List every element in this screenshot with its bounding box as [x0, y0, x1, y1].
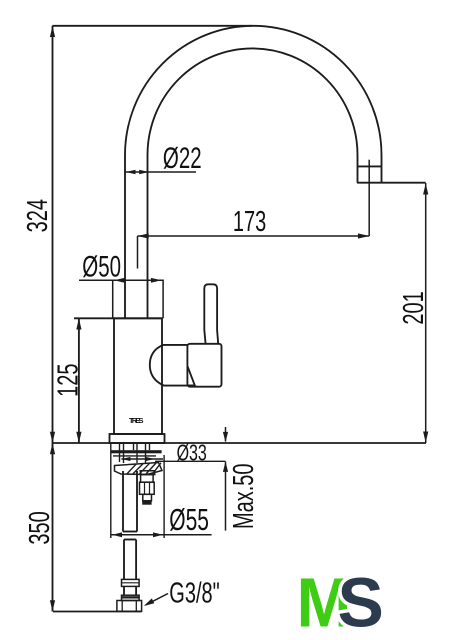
base flange [110, 434, 165, 443]
173 dimension line [138, 235, 370, 237]
valve cylinder [141, 475, 154, 483]
mounting studs [119, 443, 121, 462]
arrow 173 left [138, 233, 149, 238]
Ø55 left extension [110, 444, 112, 539]
svg-text:201: 201 [397, 291, 430, 324]
supply pipe upper [122, 471, 124, 532]
spout bottom line [357, 182, 426, 184]
svg-text:S: S [338, 563, 384, 640]
top reference line [53, 25, 253, 27]
handle lever [204, 284, 218, 344]
valve nut [140, 482, 155, 494]
dimension texts [21, 142, 429, 609]
svg-text:324: 324 [21, 199, 54, 232]
svg-text:125: 125 [52, 364, 85, 397]
svg-text:Max.50: Max.50 [227, 463, 260, 529]
Ø55 right extension [163, 455, 165, 538]
Ø33 leader line [121, 458, 163, 460]
svg-text:Ø55: Ø55 [169, 502, 209, 537]
Ø50 dimension line [79, 279, 164, 281]
valve lower [143, 494, 152, 501]
outer spout arc [125, 26, 382, 183]
aerator joint line [358, 165, 382, 167]
arrow Ø55 right [153, 532, 163, 537]
svg-text:Ø50: Ø50 [82, 251, 121, 284]
riser tube right edge [147, 155, 149, 318]
svg-text:Ø33: Ø33 [177, 441, 207, 467]
Max.50 dimension line [225, 462, 227, 531]
arrow Ø55 left [112, 532, 122, 537]
MS logo [297, 563, 384, 640]
arrow Ø50 left [114, 278, 125, 283]
svg-text:350: 350 [23, 511, 56, 544]
arrow 324 top [50, 26, 55, 37]
body top line [74, 317, 162, 319]
arrow Max50 down [223, 432, 228, 442]
svg-text:G3/8": G3/8" [169, 577, 219, 610]
arrow 125 top [76, 318, 81, 329]
arrow 201 top [423, 183, 428, 194]
Max.50 upper pointer [225, 427, 227, 442]
201 dimension line [425, 183, 427, 443]
washer line [113, 455, 156, 457]
valve neck [140, 471, 155, 475]
arrow Max50 up [223, 462, 228, 472]
arrowheads [50, 26, 428, 612]
125 dimension line [78, 318, 80, 443]
324/350 dimension line [52, 26, 54, 612]
gasket bar [112, 450, 162, 453]
173 extension tick [137, 236, 139, 269]
arrow Ø33 left [121, 457, 130, 461]
handle dome [150, 345, 188, 386]
hose collar B [122, 595, 140, 600]
arrow Ø50 right [151, 278, 162, 283]
deck line [52, 442, 426, 444]
Ø50 right extension [162, 280, 164, 318]
handle body [187, 344, 221, 387]
hose mid section [123, 586, 125, 595]
bracket hatch [127, 463, 161, 474]
faucet body [114, 318, 162, 434]
Ø55 dimension line [111, 534, 212, 536]
arrow G3/8 leader [144, 598, 155, 606]
valve tip [143, 501, 151, 504]
G3/8 leader [146, 594, 168, 605]
arrow Ø22 left [126, 170, 136, 175]
arrow 173 right [358, 233, 369, 238]
arrow Ø22 right [139, 170, 149, 175]
svg-text:TRES: TRES [129, 416, 144, 425]
arrow 324 bottom [50, 432, 55, 443]
deck bottom / leader line [155, 460, 226, 462]
mounting bracket [115, 463, 163, 475]
arrow 201 bottom [423, 432, 428, 443]
svg-text:Ø22: Ø22 [163, 142, 202, 175]
hose collar A [122, 579, 140, 586]
Ø50 left extension [112, 280, 114, 318]
arrow 350 top [50, 443, 55, 454]
handle notch [187, 366, 194, 385]
arrow 350 bottom [50, 600, 55, 611]
supply pipe lower [123, 540, 125, 580]
Ø22 dimension line [125, 171, 196, 173]
spout centerline [368, 160, 370, 236]
arrow Ø33 right [146, 457, 155, 461]
G3/8 end nut [117, 601, 142, 612]
riser tube left edge [124, 155, 126, 318]
bottom reference line [53, 611, 142, 613]
inner spout arc [148, 48, 358, 182]
svg-text:173: 173 [233, 205, 266, 238]
arrow 125 bottom [76, 432, 81, 443]
